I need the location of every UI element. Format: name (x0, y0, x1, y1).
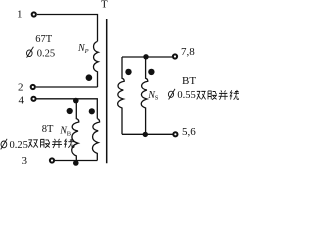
winding Ns right coil (141, 57, 148, 134)
primary winding Np (93, 41, 98, 87)
phase dot Ns left (125, 69, 131, 75)
terminal 3 circle (50, 158, 54, 162)
svg-text:BT: BT (182, 75, 196, 87)
value label phi 0.25 (NB) (1, 139, 7, 150)
svg-text:7,8: 7,8 (181, 46, 195, 58)
svg-text:S: S (155, 95, 159, 102)
svg-text:67T: 67T (35, 34, 53, 45)
svg-text:0.25: 0.25 (10, 140, 28, 151)
svg-text:0.25: 0.25 (37, 48, 55, 59)
phase dot NB right (89, 108, 95, 114)
svg-text:5,6: 5,6 (182, 126, 196, 138)
CJK 双股并绕 (NB) (28, 139, 74, 149)
junction dot Ns top (143, 54, 148, 59)
terminal 7,8 circle (173, 54, 177, 58)
svg-text:8T: 8T (42, 124, 54, 135)
value label phi 0.55 (Ns) (168, 89, 175, 100)
phase dot Ns right (148, 69, 154, 75)
svg-text:T: T (101, 0, 108, 11)
phi symbol primary (27, 47, 34, 58)
svg-text:P: P (84, 48, 89, 55)
svg-text:3: 3 (22, 155, 28, 167)
secondary bottom wire to terminal 5,6 (122, 133, 173, 135)
svg-text:2: 2 (18, 82, 24, 94)
secondary top wire to terminal 7,8 (122, 56, 172, 58)
phase dot Np (86, 74, 93, 81)
phase dot NB left (67, 108, 73, 114)
winding Ns left coil (118, 57, 125, 134)
terminal 2 circle (31, 85, 35, 89)
junction dot NB top (73, 98, 79, 104)
svg-text:B: B (67, 130, 72, 137)
svg-text:0.55: 0.55 (177, 90, 195, 101)
svg-text:4: 4 (19, 95, 25, 107)
CJK 双股并绕 (Ns) (197, 90, 239, 100)
terminal 5,6 circle (173, 132, 177, 136)
wire terminal 4 to NB right coil top (37, 99, 98, 119)
wire Np bottom to terminal 2 (36, 86, 98, 88)
terminal 4 circle (31, 97, 35, 101)
core line T (106, 19, 108, 163)
winding NB right coil (92, 119, 99, 161)
junction dot NB bottom (73, 160, 79, 166)
terminal 1 circle (32, 12, 36, 16)
svg-text:1: 1 (17, 9, 23, 21)
wire terminal 3 to NB bottoms (55, 160, 97, 162)
wire terminal1 to Np top (37, 15, 98, 42)
winding NB left coil (72, 99, 79, 161)
junction dot Ns bottom (143, 132, 148, 137)
